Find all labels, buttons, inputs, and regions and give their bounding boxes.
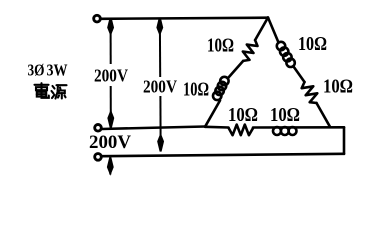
wire right riser (343, 127, 346, 154)
kanji DEN (electric) of label DENGEN (35, 83, 49, 98)
wire triangle bottom side left segment (205, 126, 229, 129)
terminal top-left (94, 15, 101, 22)
resistor R left-upper zigzag 10ohm (243, 40, 258, 61)
wire middle line (102, 127, 206, 130)
svg-text:10Ω: 10Ω (228, 104, 258, 126)
arrowhead up at bottom rail (200V gap dimension) (108, 157, 113, 173)
wire right slant upper segment (268, 18, 279, 43)
resistor R right-upper coil 10ohm (277, 42, 285, 50)
resistor R left-lower coil 10ohm (220, 77, 228, 85)
resistor R right-lower zigzag 10ohm (302, 82, 318, 103)
svg-text:10Ω: 10Ω (323, 76, 353, 98)
wire top line (101, 18, 269, 19)
dimension line 200V top-to-bottom (159, 26, 161, 77)
svg-text:3Ø: 3Ø (28, 61, 45, 80)
wire bottom rail (102, 154, 345, 156)
svg-text:10Ω: 10Ω (207, 35, 234, 57)
arrowhead down toward bottom rail (158, 136, 163, 152)
resistor R bottom-right coil 10ohm (273, 127, 281, 135)
svg-text:10Ω: 10Ω (270, 104, 300, 126)
terminal middle-left (95, 125, 102, 132)
svg-text:200V: 200V (89, 132, 131, 153)
wire right slant lower segment (317, 103, 331, 127)
arrowhead down at middle line (108, 112, 113, 128)
wire right slant middle segment (294, 67, 305, 83)
svg-text:10Ω: 10Ω (183, 79, 209, 101)
terminal bottom-left (95, 154, 102, 161)
svg-text:200V: 200V (143, 77, 177, 97)
arrowhead up at top line (108, 18, 113, 34)
svg-text:10Ω: 10Ω (298, 33, 327, 55)
wire left slant upper segment (255, 18, 268, 41)
svg-text:3W: 3W (47, 61, 68, 80)
arrowhead up at top line (second) (157, 18, 162, 34)
wire triangle bottom side middle segment (253, 126, 344, 129)
kanji GEN (source) of label DENGEN (52, 85, 67, 98)
svg-text:200V: 200V (94, 66, 128, 86)
wire left slant lower segment (205, 101, 220, 127)
dimension line 200V top-to-middle (110, 26, 112, 64)
tail of bottom up-arrow (109, 167, 111, 175)
resistor R bottom-left zigzag 10ohm (229, 125, 254, 136)
wire left slant middle segment (229, 61, 244, 78)
